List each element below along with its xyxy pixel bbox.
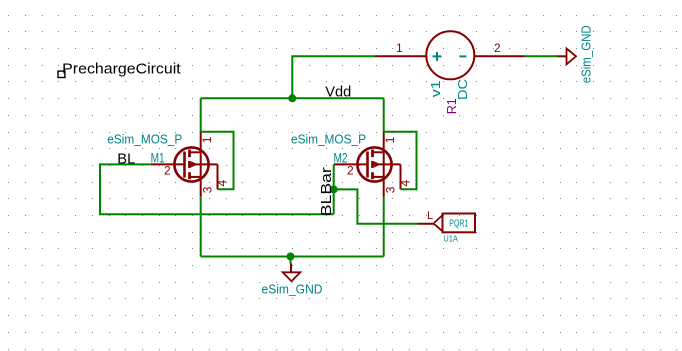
text PrechargeCircuit [62,61,181,77]
field R1 [444,98,459,114]
svg-text:v1: v1 [428,80,443,97]
pin number 2 (V1) [494,41,501,55]
wire M1 bulk loop [201,132,234,190]
wire M1 drain to Vdd [200,98,202,132]
svg-text:1: 1 [383,136,397,143]
wire M2 bulk loop [384,132,417,190]
wire M2 drain to Vdd [383,98,385,132]
global port eSim_GND right [558,49,577,65]
svg-text:4: 4 [215,180,229,187]
svg-text:2: 2 [347,164,354,178]
label BL [117,150,135,167]
svg-text:1: 1 [200,136,214,143]
pin number 1 (M1) rotated [200,136,214,143]
svg-text:4: 4 [398,180,412,187]
text PrechargeCircuit anchor square [58,71,65,77]
pin number 1 (M2) rotated [383,136,397,143]
svg-text:3: 3 [201,186,215,193]
pin number 4 (M2) rotated [398,180,412,187]
svg-text:Vdd: Vdd [325,83,351,100]
label eSim_GND right [578,25,593,83]
svg-text:eSim_GND: eSim_GND [262,283,323,297]
reference M2 [334,150,348,166]
wire gnd stub [290,257,292,264]
svg-text:eSim_MOS_P: eSim_MOS_P [291,132,366,147]
reference M1 [151,150,165,166]
svg-text:PrechargeCircuit: PrechargeCircuit [62,61,181,77]
svg-text:L: L [427,210,433,222]
transistor M2 [334,132,401,197]
wire M2 gate down [333,164,335,214]
reference U1A [443,234,458,244]
pin number 2 (M1) [164,164,171,178]
ground eSim_GND bottom [283,264,301,282]
svg-text:2: 2 [164,164,171,178]
pin number 3 (M2) rotated [383,186,397,193]
wire Vdd rail [201,97,384,99]
label BLBar [318,167,335,216]
svg-text:eSim_GND: eSim_GND [578,25,593,83]
label Vdd [325,83,351,100]
svg-text:BLBar: BLBar [318,167,335,216]
wire Vdd to V1 pin1 [292,56,375,98]
svg-text:3: 3 [383,186,397,193]
field DC [455,79,470,100]
port U1A POR1 [418,214,476,233]
wire M2 source down [383,197,385,257]
wire bottom rail [201,256,384,258]
port label PQR1 [449,218,468,229]
svg-text:M2: M2 [334,150,348,166]
svg-text:1: 1 [396,41,403,55]
pin label L (port) [427,210,433,222]
svg-text:eSim_MOS_P: eSim_MOS_P [107,132,182,147]
pin number 3 (M1) rotated [201,186,215,193]
node BLBar junction [330,185,338,193]
wire BL to M1 gate [100,164,334,214]
wire M1 source down [200,197,202,257]
wire junction to port [334,189,418,223]
pin number 1 (V1) [396,41,403,55]
transistor M1 [151,132,218,197]
value v1 [428,80,443,97]
node Vdd junction [288,94,296,102]
svg-text:PQR1: PQR1 [449,218,468,229]
wire V1 pin2 to gnd port [525,55,558,57]
node gnd junction [287,253,295,261]
svg-text:2: 2 [494,41,501,55]
voltage source V1 [375,31,525,79]
svg-text:M1: M1 [151,150,165,166]
pin number 2 (M2) [347,164,354,178]
svg-text:DC: DC [455,79,470,100]
label eSim_GND bottom [262,283,323,297]
pin number 4 (M1) rotated [215,180,229,187]
label eSim_MOS_P (M2) [291,132,366,147]
svg-text:U1A: U1A [443,234,458,244]
label eSim_MOS_P (M1) [107,132,182,147]
